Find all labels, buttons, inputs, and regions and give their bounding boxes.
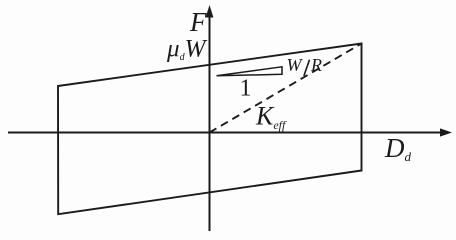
horizontal axis (Dd axis): [8, 132, 444, 134]
slash of W/R: [304, 60, 310, 76]
svg-text:W: W: [287, 55, 304, 75]
svg-text:F: F: [189, 7, 207, 37]
svg-text:1: 1: [240, 76, 252, 102]
vertical axis arrowhead: [206, 5, 214, 18]
hysteresis loop parallelogram: [58, 44, 362, 215]
svg-text:μdW: μdW: [166, 36, 208, 64]
horizontal axis arrowhead: [440, 128, 452, 136]
vertical axis (F axis): [209, 14, 211, 231]
slope indicator triangle (W/R over 1): [217, 67, 283, 76]
svg-text:R: R: [310, 55, 322, 75]
dashed effective-stiffness line Keff: [210, 44, 362, 133]
